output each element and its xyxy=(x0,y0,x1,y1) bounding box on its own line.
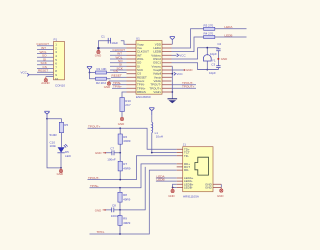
node SO xyxy=(110,59,127,63)
node TPIN- xyxy=(112,81,127,85)
capacitor C1 on Vcap xyxy=(98,34,126,47)
power port VCC pull-ups xyxy=(87,66,92,73)
resistor R4 270R xyxy=(204,32,215,39)
svg-text:GND: GND xyxy=(95,151,101,155)
LED D5 xyxy=(57,133,71,169)
svg-text:TD-: TD- xyxy=(184,154,189,158)
ground GND at J1 right xyxy=(217,188,223,198)
node INT xyxy=(110,52,127,56)
node WOL xyxy=(110,55,127,59)
power port VCC at L1 xyxy=(149,108,154,116)
resistor R7 49R9 xyxy=(118,153,131,180)
svg-text:C3: C3 xyxy=(211,63,215,67)
svg-text:GND: GND xyxy=(168,194,174,198)
resistor R8 49R9 xyxy=(118,188,131,210)
node TPOUT+ right xyxy=(172,85,197,89)
connector P1 CON10 xyxy=(54,38,66,88)
resistor R1 10K to CS xyxy=(90,67,127,74)
resistor R6 49R9 xyxy=(118,128,131,153)
svg-text:RD-: RD- xyxy=(184,168,189,172)
wire LEDB pin to R4 xyxy=(172,37,247,52)
svg-text:49R9: 49R9 xyxy=(123,221,131,225)
svg-text:49R9: 49R9 xyxy=(123,166,131,170)
svg-text:R1 10K: R1 10K xyxy=(97,67,107,71)
svg-text:100nF: 100nF xyxy=(107,157,116,161)
resistor R5 510R xyxy=(50,122,69,148)
wire OSC1 to crystal xyxy=(172,63,219,70)
ground GND at Vssrx xyxy=(104,81,111,89)
node CLKOUT xyxy=(110,48,127,52)
svg-text:Vddrx: Vddrx xyxy=(153,90,161,94)
svg-text:49R9: 49R9 xyxy=(123,197,131,201)
svg-text:HR911105A: HR911105A xyxy=(183,195,199,199)
svg-text:LEDA: LEDA xyxy=(224,25,233,29)
node TPIN- wire xyxy=(90,170,177,235)
node TPOUT- wire xyxy=(88,156,177,181)
node LEDB wire at J1 xyxy=(156,178,177,182)
power port VCC at LED xyxy=(44,111,49,120)
svg-text:C2: C2 xyxy=(217,42,221,46)
svg-text:C1: C1 xyxy=(101,34,105,38)
svg-text:GND: GND xyxy=(205,186,212,190)
svg-text:CS: CS xyxy=(114,69,118,73)
svg-text:10pF: 10pF xyxy=(210,52,217,56)
capacitor C2 10pF xyxy=(210,42,222,59)
power port VCC at P1 pin 9 xyxy=(21,71,54,77)
svg-text:CON10: CON10 xyxy=(55,84,65,88)
node TPIN+ xyxy=(112,85,127,89)
svg-text:GND: GND xyxy=(95,208,101,212)
ground GND at J1 left xyxy=(168,188,174,199)
wire WOL to P1 pin 3 xyxy=(37,50,54,54)
wire Vssosc down to ground xyxy=(171,66,173,98)
svg-text:TPOUT-: TPOUT- xyxy=(88,176,99,180)
svg-text:TPIN+: TPIN+ xyxy=(90,184,99,188)
resistor R10 2K7 on RBIAS xyxy=(120,92,131,117)
wire OSC2 to crystal xyxy=(172,48,219,59)
inductor L1 10uH xyxy=(152,115,163,152)
svg-text:R3 270: R3 270 xyxy=(204,24,214,28)
wire Vddtx to vertical xyxy=(171,91,174,93)
svg-text:RESET: RESET xyxy=(112,74,122,78)
node TPOUT- right xyxy=(172,81,197,85)
svg-text:LED: LED xyxy=(65,154,72,158)
ground GND net at Vsspll xyxy=(172,68,193,72)
svg-text:GND: GND xyxy=(217,194,223,198)
node RESET xyxy=(111,74,127,78)
svg-text:100n: 100n xyxy=(50,144,57,148)
svg-text:VCC: VCC xyxy=(21,71,28,75)
svg-text:P1: P1 xyxy=(54,38,58,42)
resistor R9 49R9 xyxy=(118,210,131,234)
node LEDA wire at J1 xyxy=(156,174,177,178)
resistor R2 2K2 xyxy=(90,73,111,86)
svg-text:10uH: 10uH xyxy=(156,135,163,139)
wire SI to P1 pin 5 xyxy=(37,57,54,61)
wire CS to P1 pin 7 xyxy=(37,65,54,69)
ground GND under R10 xyxy=(118,117,124,125)
svg-text:TPOUT+: TPOUT+ xyxy=(182,85,194,89)
svg-text:TPIN-: TPIN- xyxy=(97,230,105,234)
svg-text:VCC: VCC xyxy=(179,54,186,58)
ground AGND at P1 pin 10 xyxy=(41,77,53,86)
node SCK xyxy=(110,66,127,70)
svg-text:GND: GND xyxy=(221,57,227,61)
svg-text:49R9: 49R9 xyxy=(123,139,131,143)
node LEDB xyxy=(224,33,232,37)
svg-text:R5: R5 xyxy=(64,123,68,127)
wire INT to P1 pin 2 xyxy=(37,46,54,50)
wire SO to P1 pin 4 xyxy=(37,54,54,58)
svg-text:U1: U1 xyxy=(136,37,140,41)
svg-text:TPIN+: TPIN+ xyxy=(113,85,122,89)
svg-text:J1: J1 xyxy=(183,143,187,147)
svg-text:LEDB: LEDB xyxy=(224,33,232,37)
svg-text:2K7: 2K7 xyxy=(125,103,131,107)
power port VCC at Vddpll xyxy=(172,72,184,77)
node LEDA xyxy=(224,25,233,29)
svg-text:LEDB: LEDB xyxy=(157,178,165,182)
svg-text:10pF: 10pF xyxy=(209,71,216,75)
svg-text:VCC: VCC xyxy=(176,72,183,76)
wire LED loop xyxy=(47,119,61,168)
ground GND under C1 xyxy=(95,49,101,57)
wire J1 LED cathodes to ground xyxy=(172,184,177,188)
node TPIN+ wire xyxy=(90,164,177,189)
ground GND net at C8 xyxy=(95,208,106,212)
crystal Y1 25MHz xyxy=(203,47,216,71)
svg-text:GND: GND xyxy=(118,122,124,126)
wire Vss to GND xyxy=(97,47,126,49)
svg-text:RBIAS: RBIAS xyxy=(137,90,146,94)
capacitor C3 10pF xyxy=(198,59,221,75)
wire CLKOUT to P1 pin 1 xyxy=(37,42,54,46)
svg-text:10: 10 xyxy=(55,77,59,81)
svg-text:TPOUT+: TPOUT+ xyxy=(88,125,100,129)
IC U1 ENC28J60 xyxy=(127,37,172,100)
node SI xyxy=(110,63,127,67)
svg-text:RESET: RESET xyxy=(38,69,48,73)
svg-text:C8: C8 xyxy=(112,204,116,208)
svg-text:C7: C7 xyxy=(110,147,114,151)
svg-text:AGND: AGND xyxy=(41,81,49,85)
svg-text:510R: 510R xyxy=(50,133,58,137)
capacitor C7 100nF xyxy=(106,147,122,162)
wire LEDA pin to R3 xyxy=(172,29,247,48)
capacitor C8 100nF xyxy=(105,167,145,218)
svg-text:LEDB-: LEDB- xyxy=(184,186,193,190)
svg-text:GND: GND xyxy=(57,172,63,176)
svg-text:GND: GND xyxy=(104,85,110,89)
wire TCT from L1 xyxy=(151,152,177,154)
wire Vssrx to GND xyxy=(109,80,127,82)
power port VCC at Vddosc xyxy=(172,54,187,58)
wire SCK to P1 pin 6 xyxy=(37,61,54,65)
svg-text:GND: GND xyxy=(95,54,101,58)
wire RESET to P1 pin 8 xyxy=(37,69,54,73)
ground GND net at C7 xyxy=(95,151,106,155)
svg-text:10uF: 10uF xyxy=(111,41,118,45)
svg-text:GND: GND xyxy=(186,68,192,72)
svg-text:R4 270: R4 270 xyxy=(204,32,214,36)
wire J1 right pins to ground xyxy=(220,184,222,187)
connector J1 HR911105A xyxy=(177,143,222,199)
ground GND under LED xyxy=(57,168,63,176)
svg-text:ENC28J60: ENC28J60 xyxy=(136,95,151,99)
node TPOUT+ wire xyxy=(88,125,177,150)
power port VCC at VDD pin xyxy=(170,37,175,45)
ground bar under IC right xyxy=(168,99,178,103)
resistor R3 270R xyxy=(204,24,215,31)
ground GND net at crystal xyxy=(217,57,227,61)
